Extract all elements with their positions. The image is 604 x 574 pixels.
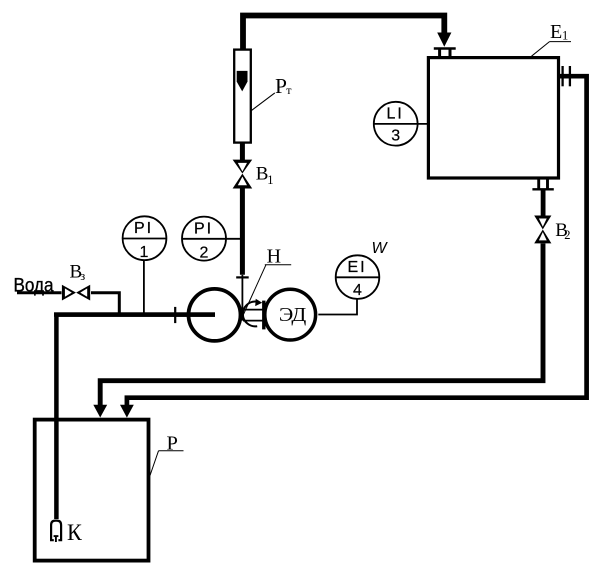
- svg-text:EI: EI: [347, 259, 366, 276]
- svg-text:1: 1: [267, 173, 273, 187]
- svg-text:LI: LI: [387, 106, 404, 123]
- svg-text:К: К: [67, 520, 82, 545]
- svg-text:1: 1: [562, 29, 568, 43]
- svg-text:т: т: [286, 83, 292, 97]
- svg-text:2: 2: [564, 228, 570, 242]
- svg-text:W: W: [372, 240, 389, 257]
- svg-text:PI: PI: [194, 220, 213, 237]
- svg-text:2: 2: [200, 244, 209, 261]
- svg-text:4: 4: [353, 282, 362, 299]
- svg-text:ЭД: ЭД: [279, 304, 307, 326]
- svg-text:Е: Е: [550, 21, 562, 43]
- svg-text:Р: Р: [275, 74, 287, 98]
- svg-text:з: з: [80, 269, 85, 283]
- svg-text:3: 3: [391, 128, 400, 145]
- svg-text:1: 1: [140, 244, 149, 261]
- svg-text:PI: PI: [134, 220, 153, 237]
